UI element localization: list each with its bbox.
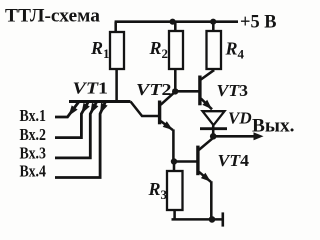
svg-text:VT1: VT1 [73,79,109,98]
svg-text:R4: R4 [225,39,245,62]
svg-text:Вх.3: Вх.3 [20,144,47,163]
svg-text:ТТЛ-схема: ТТЛ-схема [5,6,101,27]
svg-text:Вх.2: Вх.2 [20,125,47,144]
svg-text:VT4: VT4 [218,151,250,170]
svg-text:R3: R3 [148,179,168,202]
svg-text:VD: VD [228,109,252,128]
svg-text:+5 В: +5 В [240,13,277,33]
svg-text:Вых.: Вых. [252,116,295,137]
svg-text:VT2: VT2 [136,80,172,99]
svg-text:R1: R1 [90,38,110,61]
svg-text:R2: R2 [149,38,169,61]
svg-text:Вх.4: Вх.4 [20,162,47,181]
svg-text:VT3: VT3 [217,81,249,100]
svg-text:Вх.1: Вх.1 [20,106,47,125]
